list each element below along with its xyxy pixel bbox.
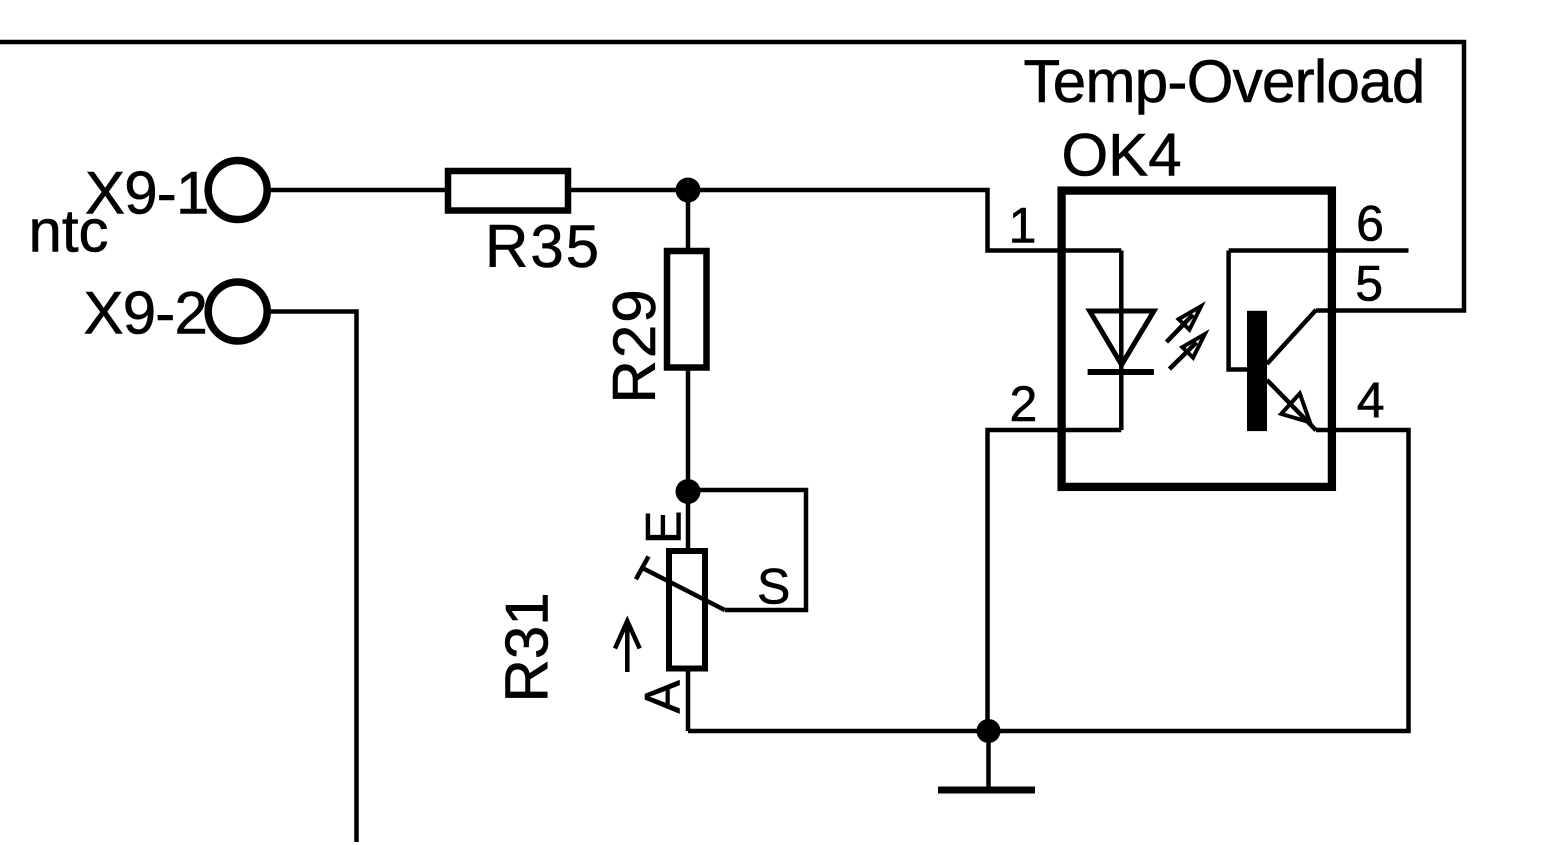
potentiometer R31 bbox=[669, 551, 705, 669]
svg-text:A: A bbox=[635, 680, 691, 714]
wire top rail to pin 5 bbox=[0, 42, 1464, 311]
pin 6 wire bbox=[1229, 248, 1409, 253]
svg-text:5: 5 bbox=[1355, 256, 1383, 312]
svg-text:4: 4 bbox=[1357, 372, 1385, 428]
wire junction to R29 bbox=[686, 190, 691, 251]
node junction at R29 top bbox=[676, 178, 701, 203]
svg-text:1: 1 bbox=[1009, 198, 1037, 254]
wire X9-2 down bbox=[271, 312, 357, 843]
svg-text:X9-2: X9-2 bbox=[84, 280, 208, 347]
LED cathode bar bbox=[1088, 369, 1154, 375]
terminal X9-2 bbox=[208, 282, 267, 341]
ground bbox=[986, 731, 991, 788]
phototransistor base lead bbox=[1229, 251, 1247, 370]
svg-text:R31: R31 bbox=[494, 592, 561, 702]
svg-text:E: E bbox=[636, 511, 692, 544]
phototransistor bar bbox=[1247, 311, 1267, 431]
LED anode lead bbox=[1119, 251, 1124, 372]
resistor R29 bbox=[667, 251, 707, 368]
emitter arrowhead bbox=[1281, 394, 1310, 423]
resistor R35 bbox=[448, 171, 568, 211]
LED triangle bbox=[1090, 311, 1154, 365]
wire R29 to node E bbox=[686, 368, 691, 492]
wiper of R31 bbox=[642, 568, 725, 610]
optocoupler OK4 bbox=[1062, 191, 1332, 487]
light arrow 2 bbox=[1169, 334, 1204, 369]
wire X9-1 to R35 bbox=[271, 188, 446, 193]
wire bottom rail up to pin 4 bbox=[688, 430, 1409, 731]
wire E lead bbox=[686, 492, 691, 552]
svg-text:R35: R35 bbox=[485, 213, 601, 280]
wiper T-bar bbox=[636, 556, 649, 579]
LED cathode lead bbox=[1119, 372, 1124, 430]
phototransistor collector bbox=[1267, 310, 1316, 364]
svg-text:ntc: ntc bbox=[29, 198, 109, 265]
light arrow 1 bbox=[1167, 306, 1202, 342]
wire R35 to pin 1 bbox=[570, 190, 1121, 251]
svg-text:S: S bbox=[757, 559, 790, 615]
svg-text:R29: R29 bbox=[601, 287, 668, 403]
terminal X9-1 bbox=[208, 161, 267, 220]
node junction at E bbox=[676, 479, 701, 504]
svg-text:2: 2 bbox=[1009, 376, 1037, 432]
wire pin 2 net bbox=[988, 430, 1122, 731]
node ground junction bbox=[977, 719, 1001, 743]
phototransistor emitter bbox=[1267, 380, 1316, 430]
direction arrow of R31 bbox=[615, 621, 640, 672]
svg-text:Temp-Overload: Temp-Overload bbox=[1024, 48, 1425, 115]
svg-text:OK4: OK4 bbox=[1062, 121, 1182, 188]
wire S loop bbox=[688, 490, 806, 610]
wire A lead to bottom rail bbox=[686, 668, 691, 731]
svg-text:6: 6 bbox=[1356, 196, 1384, 252]
